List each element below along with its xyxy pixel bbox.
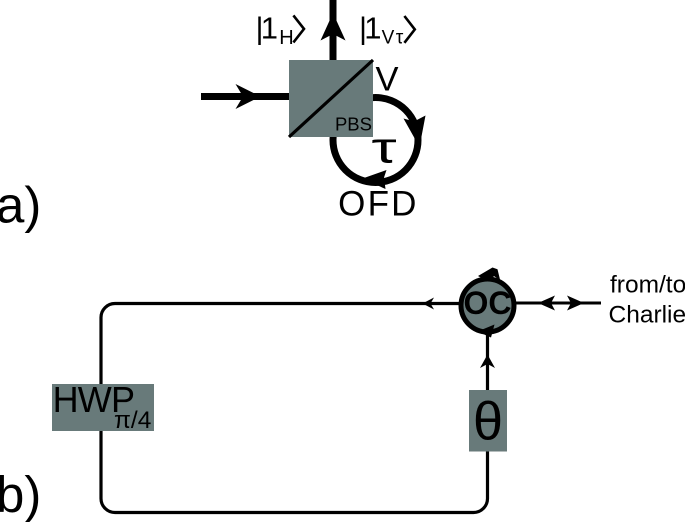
svg-text:OFD: OFD — [338, 185, 418, 224]
svg-text:π/4: π/4 — [114, 407, 151, 434]
svg-text:PBS: PBS — [335, 114, 372, 135]
svg-text:a): a) — [0, 177, 41, 234]
svg-text:OC: OC — [464, 285, 512, 321]
svg-text:θ: θ — [473, 392, 503, 452]
svg-text:τ: τ — [371, 124, 396, 172]
svg-text:Charlie: Charlie — [609, 302, 685, 329]
svg-text:Vτ: Vτ — [382, 27, 405, 48]
svg-text:H: H — [279, 27, 293, 49]
svg-text:1: 1 — [261, 11, 278, 46]
svg-text:b): b) — [0, 466, 41, 522]
svg-text:from/to: from/to — [610, 272, 685, 299]
svg-text:1: 1 — [364, 11, 381, 46]
svg-text:V: V — [376, 61, 399, 99]
